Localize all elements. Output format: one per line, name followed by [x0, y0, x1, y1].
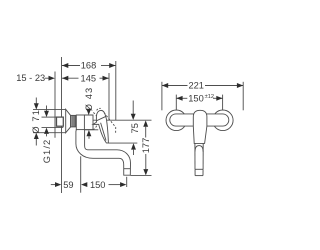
lever dashed knob tick: [97, 108, 101, 110]
svg-text:221: 221: [188, 81, 204, 91]
axis centerline ext (75/177 reference): [93, 119, 152, 121]
dim 177: [131, 120, 152, 175]
svg-text:150: 150: [188, 94, 204, 104]
ext line spout axis (59/150): [80, 156, 82, 192]
lever dashed open position: [104, 113, 116, 135]
wall line rough: [54, 72, 56, 138]
body bar: [170, 114, 229, 126]
dim dia 71: [31, 98, 65, 146]
front aerator: [195, 169, 203, 175]
svg-text:75: 75: [130, 123, 140, 133]
dim 221: [162, 81, 243, 91]
dashed cartridge arc: [93, 113, 97, 130]
bottom ext line 177: [131, 174, 152, 176]
lever inner diagonal: [101, 123, 106, 141]
svg-text:15 - 23: 15 - 23: [16, 73, 45, 83]
dim dia 43: [84, 87, 98, 139]
ext line 168: [115, 61, 117, 120]
dim 168: [62, 61, 116, 71]
svg-text:168: 168: [81, 61, 97, 71]
handle knob front: [193, 110, 207, 143]
dim G1/2: [42, 106, 64, 164]
ext line 145: [108, 73, 110, 120]
dim 15 - 23: [16, 73, 55, 83]
right escutcheon circle: [213, 110, 234, 131]
spout top ext line to 75 arrow: [108, 142, 137, 144]
svg-text:177: 177: [141, 138, 151, 154]
spout tube (side view, closed outline): [76, 130, 131, 176]
dim 150+-12: [176, 94, 222, 104]
svg-text:±12: ±12: [205, 94, 214, 100]
lever handle solid: [93, 110, 108, 143]
ext line spout outlet center: [126, 177, 128, 187]
svg-text:150: 150: [90, 180, 106, 190]
svg-text:Ø 43: Ø 43: [84, 87, 94, 112]
left escutcheon circle: [166, 110, 187, 131]
svg-text:59: 59: [63, 180, 73, 190]
svg-text:G1/2: G1/2: [42, 139, 52, 164]
dim 75: [130, 101, 140, 156]
lever waist line: [96, 116, 105, 120]
ribbed nut: [71, 115, 77, 127]
escutcheon cone: [66, 109, 71, 132]
svg-text:145: 145: [81, 73, 97, 83]
ext lines 150+-12: [175, 95, 177, 110]
front spout tube: [195, 143, 203, 169]
dim 145: [62, 73, 109, 83]
body block: [76, 115, 93, 130]
svg-text:Ø 71: Ø 71: [31, 109, 41, 134]
ext lines 221: [161, 82, 163, 111]
square nipple G1/2: [57, 117, 64, 126]
dim 59 / 150 bottom row: [51, 180, 127, 190]
wall line finished: [61, 57, 63, 193]
aerator band (side view): [124, 168, 131, 170]
